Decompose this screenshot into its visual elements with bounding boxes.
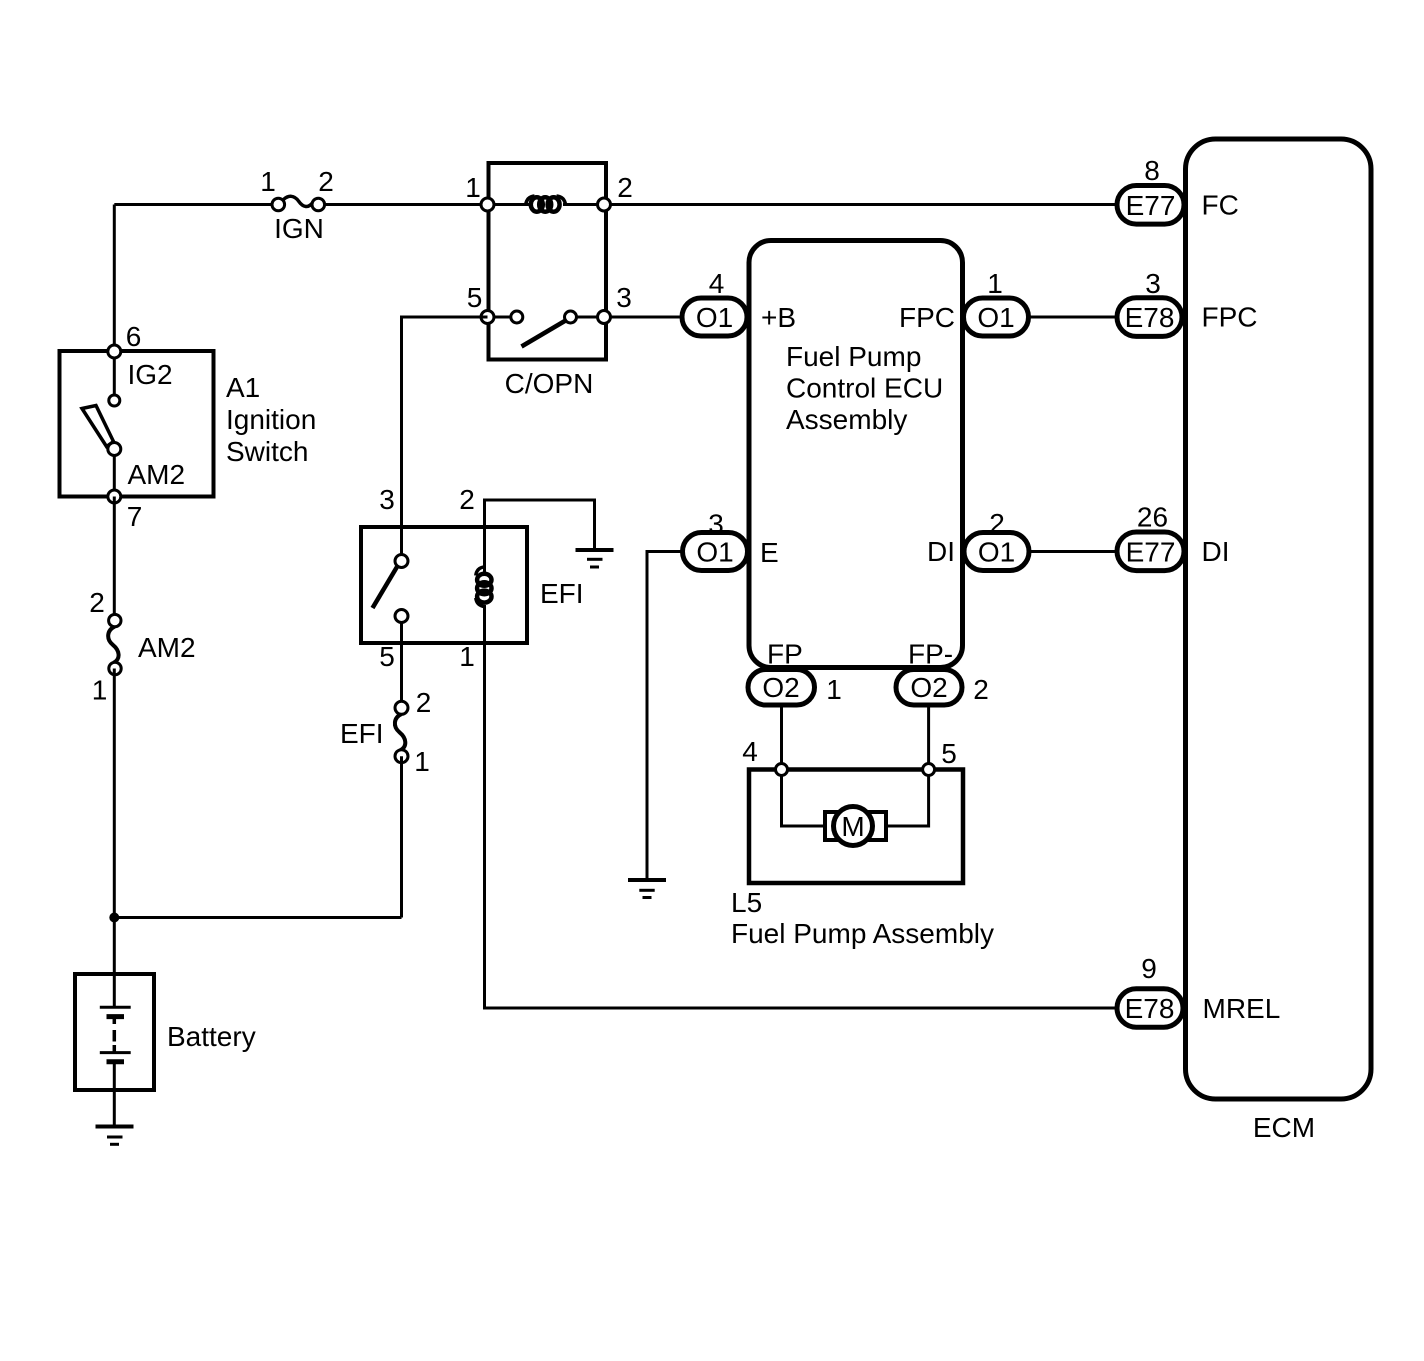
terminal E78 MREL: [1117, 989, 1183, 1027]
svg-text:O2: O2: [910, 672, 947, 703]
wire fuel pump pin 4 to motor: [782, 775, 831, 826]
svg-text:ECM: ECM: [1253, 1112, 1315, 1143]
svg-text:M: M: [841, 811, 864, 842]
svg-text:O1: O1: [978, 537, 1015, 568]
relay EFI switch lever: [373, 566, 398, 608]
ignition switch pin 6 circle: [108, 345, 121, 358]
relay C/OPN box: [489, 163, 607, 360]
wire EFI relay pin 5 to EFI fuse: [400, 622, 403, 703]
svg-text:Ignition: Ignition: [226, 404, 316, 435]
svg-text:Control ECU: Control ECU: [786, 373, 943, 404]
svg-text:A1: A1: [226, 372, 260, 403]
svg-text:2: 2: [989, 508, 1005, 539]
svg-text:2: 2: [973, 674, 989, 705]
svg-text:Fuel Pump Assembly: Fuel Pump Assembly: [731, 918, 994, 949]
svg-text:5: 5: [467, 282, 483, 313]
wire IG2 stub inside switch: [113, 358, 116, 395]
ignition switch A1 box: [60, 351, 214, 497]
ignition switch moving contact circle: [108, 443, 121, 456]
wire O2 FP- to fuel pump pin 5: [927, 705, 930, 770]
ground battery: [96, 1127, 134, 1145]
wire fuel pump pin 5 to motor: [882, 775, 929, 826]
connector O2 FP: [748, 670, 815, 706]
svg-text:5: 5: [941, 738, 957, 769]
svg-text:1: 1: [826, 674, 842, 705]
svg-text:3: 3: [708, 509, 724, 540]
ground ECU E wire: [628, 880, 666, 898]
battery cell 1 short plate: [107, 1014, 125, 1019]
svg-text:26: 26: [1137, 502, 1168, 533]
wire EFI relay pin 1 to ECM MREL terminal: [485, 605, 1118, 1008]
relay EFI box: [361, 527, 527, 643]
svg-text:O2: O2: [762, 672, 799, 703]
svg-text:IGN: IGN: [274, 213, 324, 244]
label L5 Fuel Pump Assembly: [731, 887, 994, 949]
svg-text:E78: E78: [1125, 302, 1175, 333]
terminal E77 DI: [1117, 532, 1184, 571]
wire C/OPN coil to pin 2 and on to ECM FC terminal E77: [563, 203, 1117, 206]
svg-text:3: 3: [379, 484, 395, 515]
fuse EFI: [395, 701, 408, 762]
fuel pump pin 5 circle: [923, 764, 935, 776]
svg-text:E78: E78: [1125, 993, 1175, 1024]
svg-text:3: 3: [1145, 268, 1161, 299]
wire top horizontal battery to IGN fuse: [114, 203, 278, 206]
connector O1 FPC: [964, 298, 1029, 336]
battery box: [75, 974, 154, 1090]
wire ECU FPC to ECM FPC: [1029, 316, 1117, 319]
svg-text:IG2: IG2: [128, 359, 173, 390]
svg-text:FC: FC: [1202, 190, 1239, 221]
svg-text:1: 1: [459, 641, 475, 672]
wire C/OPN pin 5 to EFI relay pin 3: [402, 317, 488, 556]
wire ECU DI to ECM DI: [1029, 550, 1117, 553]
svg-text:9: 9: [1141, 953, 1157, 984]
ECM box: [1186, 139, 1372, 1099]
svg-text:1: 1: [987, 268, 1003, 299]
battery dashed link: [113, 1017, 117, 1053]
wire ECU E to ground: [647, 552, 683, 881]
wire C/OPN pin 5 to switch contact: [489, 316, 511, 319]
svg-text:Fuel Pump: Fuel Pump: [786, 341, 921, 372]
relay C/OPN pin 1 circle: [481, 198, 494, 211]
relay EFI switch bottom contact circle: [395, 610, 408, 623]
svg-text:8: 8: [1144, 155, 1160, 186]
svg-text:MREL: MREL: [1203, 993, 1281, 1024]
motor M circle: [834, 807, 873, 846]
svg-text:C/OPN: C/OPN: [505, 368, 594, 399]
relay EFI switch top contact circle: [395, 555, 408, 568]
label Fuel Pump Control ECU Assembly: [786, 341, 943, 435]
relay C/OPN pin 5 circle: [481, 311, 494, 324]
svg-text:EFI: EFI: [540, 578, 584, 609]
svg-text:O1: O1: [977, 302, 1014, 333]
ignition switch lever blade: [82, 406, 114, 447]
ignition switch pin 7 circle: [108, 490, 121, 503]
relay EFI coil: [476, 567, 492, 607]
svg-text:7: 7: [127, 501, 143, 532]
wire battery positive to ignition switch pin 6 (left vertical): [113, 205, 116, 354]
wire AM2 contact to pin 7: [113, 456, 116, 490]
svg-text:AM2: AM2: [128, 459, 186, 490]
svg-text:EFI: EFI: [340, 718, 384, 749]
fuel pump control ECU assembly box: [749, 241, 963, 668]
fuse AM2: [108, 614, 121, 674]
svg-text:FP: FP: [767, 639, 803, 670]
svg-text:4: 4: [709, 268, 725, 299]
svg-text:FP-: FP-: [908, 639, 953, 670]
svg-text:L5: L5: [731, 887, 762, 918]
terminal E77 FC: [1117, 186, 1184, 225]
svg-text:2: 2: [617, 172, 633, 203]
relay C/OPN switch lever: [522, 319, 570, 347]
svg-text:E: E: [760, 537, 779, 568]
wire O2 FP to fuel pump pin 4: [780, 705, 783, 770]
svg-text:2: 2: [416, 687, 432, 718]
svg-text:Battery: Battery: [167, 1021, 256, 1052]
svg-text:FPC: FPC: [899, 302, 955, 333]
ground EFI relay coil: [576, 550, 614, 567]
svg-text:AM2: AM2: [138, 632, 196, 663]
relay C/OPN coil: [526, 196, 566, 212]
wire junction to EFI fuse (bottom horizontal): [114, 916, 401, 919]
svg-text:Switch: Switch: [226, 436, 308, 467]
connector O2 FP-: [896, 670, 962, 706]
svg-text:Assembly: Assembly: [786, 404, 907, 435]
svg-text:O1: O1: [696, 302, 733, 333]
svg-text:E77: E77: [1126, 536, 1176, 567]
connector O1 E: [683, 533, 748, 571]
svg-text:E77: E77: [1126, 190, 1176, 221]
connector O1 +B: [682, 298, 747, 336]
wire IGN fuse to C/OPN pin 1: [318, 203, 530, 206]
node junction battery positive: [109, 913, 119, 923]
connector O1 DI: [964, 533, 1029, 571]
relay C/OPN switch contact circles: [511, 311, 577, 323]
battery cell 2 long plate: [100, 1051, 131, 1054]
fuel pump pin 4 circle: [776, 764, 788, 776]
relay C/OPN pin 3 circle: [598, 311, 611, 324]
fuse IGN: [272, 196, 325, 211]
wire battery negative to ground: [113, 1062, 116, 1127]
svg-text:DI: DI: [1202, 536, 1230, 567]
svg-text:4: 4: [742, 736, 758, 767]
svg-text:1: 1: [465, 172, 481, 203]
wire ignition switch pin 7 to AM2 fuse: [113, 497, 116, 616]
svg-text:2: 2: [89, 587, 105, 618]
svg-text:3: 3: [616, 282, 632, 313]
svg-text:1: 1: [92, 675, 108, 706]
wire EFI relay pin 2 up and over to ground: [485, 500, 595, 574]
motor M frame rectangle: [825, 812, 886, 840]
svg-text:O1: O1: [696, 537, 733, 568]
label A1 Ignition Switch: [226, 372, 316, 467]
svg-text:2: 2: [318, 166, 334, 197]
battery cell 2 short plate: [107, 1059, 125, 1064]
wire AM2 fuse to battery: [113, 669, 116, 975]
svg-text:1: 1: [260, 166, 276, 197]
wire C/OPN switch contact to pin 3: [576, 316, 604, 319]
svg-text:2: 2: [459, 484, 475, 515]
svg-text:6: 6: [126, 321, 142, 352]
svg-text:+B: +B: [761, 302, 796, 333]
fuel pump assembly L5 box: [749, 770, 963, 884]
svg-text:FPC: FPC: [1202, 302, 1258, 333]
terminal E78 FPC: [1117, 298, 1182, 337]
ignition switch IG2 contact circle: [109, 395, 120, 406]
battery internal wire top: [113, 974, 116, 1007]
relay C/OPN pin 2 circle: [598, 198, 611, 211]
wire C/OPN pin 3 to ECU +B: [606, 316, 682, 319]
battery cell 1 long plate: [100, 1006, 131, 1009]
svg-text:5: 5: [379, 641, 395, 672]
svg-text:DI: DI: [927, 536, 955, 567]
wire EFI fuse to bottom horizontal: [400, 756, 403, 917]
svg-text:1: 1: [414, 746, 430, 777]
